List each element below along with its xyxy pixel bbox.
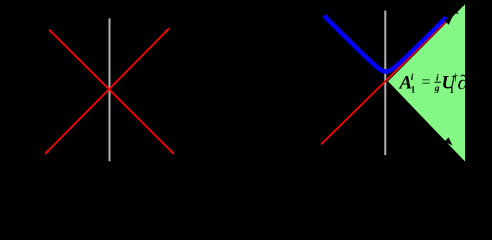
svg-text:∂: ∂ [458,72,468,94]
faint black arrowheads at line ends (left) [45,29,174,155]
svg-text:g: g [434,84,440,94]
gray vertical time axis (left) [109,18,111,161]
svg-text:i: i [411,73,414,83]
black arrowhead at lower-right cone arm end (notch in green) [444,137,452,145]
red light-cone line UL-to-LR (left) [49,30,174,155]
red light-cone line LL-to-UR (right, drawn over green edge) [321,22,446,145]
gray vertical time axis (right) [384,11,386,156]
black arrowhead at end of x+ axis (over green) [444,17,452,25]
label x+ (black, visible over green only) [452,0,467,18]
red light-cone line LL-to-UR (left) [45,29,169,155]
blue gauge-field trajectory curve (hyperbola hugging upper cone) [324,16,446,72]
svg-text:1: 1 [411,85,416,95]
svg-text:1: 1 [450,85,455,95]
green shaded region (right quadrant of cone) [388,4,465,161]
red light-cone line UL-to-LR (right, lower-right half hidden under green) [326,18,372,64]
formula A^i_1 = (i/g) U_1^dagger d (black on green) [399,72,468,95]
red light-cone line lower-right portion (hidden under green, end only) [398,90,451,143]
svg-text:+: + [461,0,466,9]
svg-text:x: x [452,2,460,18]
svg-text:=: = [422,74,431,91]
